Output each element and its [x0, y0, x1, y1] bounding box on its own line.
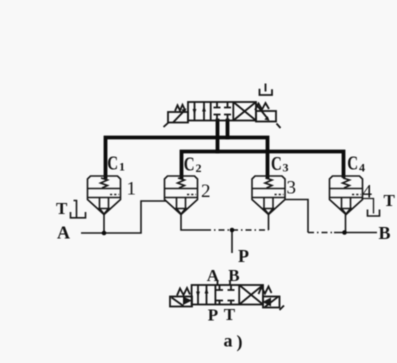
svg-text:C: C — [271, 152, 282, 175]
svg-text:P: P — [208, 306, 218, 325]
svg-text:P: P — [238, 246, 249, 266]
svg-text:4: 4 — [363, 182, 373, 203]
svg-text:T: T — [384, 191, 396, 210]
svg-text:4: 4 — [359, 161, 365, 175]
svg-text:C: C — [107, 151, 118, 174]
svg-text:B: B — [228, 266, 239, 285]
svg-text:C: C — [347, 151, 358, 174]
svg-text:3: 3 — [283, 161, 289, 175]
svg-text:T: T — [56, 199, 68, 218]
svg-text:a: a — [224, 331, 233, 351]
svg-text:C: C — [184, 152, 195, 175]
svg-text:T: T — [224, 305, 236, 324]
svg-text:3: 3 — [287, 178, 297, 199]
svg-text:A: A — [207, 266, 220, 285]
svg-text:B: B — [379, 223, 391, 243]
svg-text:2: 2 — [201, 181, 211, 202]
svg-text:1: 1 — [127, 179, 137, 200]
svg-text:1: 1 — [119, 160, 125, 174]
svg-text:): ) — [237, 332, 243, 353]
svg-text:2: 2 — [196, 161, 202, 175]
svg-text:A: A — [57, 223, 70, 243]
